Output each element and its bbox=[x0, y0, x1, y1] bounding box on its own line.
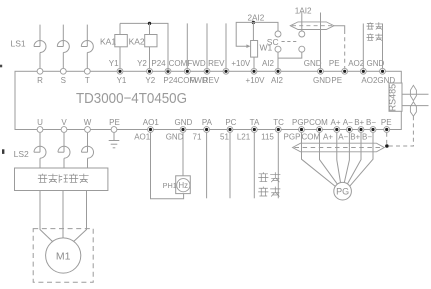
terminal PE (bottom) bbox=[384, 127, 390, 133]
shield drain to PE (dashed) bbox=[344, 30, 346, 68]
svg-text:COM: COM bbox=[309, 118, 328, 127]
SC linkage (dashed) bbox=[282, 41, 299, 43]
wire SC pole2 bottom tie bbox=[278, 52, 302, 58]
svg-text:Y1: Y1 bbox=[109, 59, 119, 68]
svg-text:PH1: PH1 bbox=[163, 181, 177, 190]
svg-text:PE: PE bbox=[331, 76, 342, 85]
LS1 breaker pole S bbox=[57, 41, 69, 53]
terminal R (top, open circle) bbox=[37, 68, 43, 74]
wire 2AI2 node down to W1 top bbox=[252, 22, 254, 40]
svg-text:REV: REV bbox=[208, 59, 225, 68]
terminal TC (bottom) bbox=[275, 127, 281, 133]
svg-text:AO1: AO1 bbox=[143, 118, 160, 127]
svg-text:LS1: LS1 bbox=[11, 38, 26, 48]
motor M1 body bbox=[46, 238, 81, 273]
scan artifact mark (left edge, top) bbox=[0, 65, 2, 68]
svg-text:PE: PE bbox=[109, 118, 120, 127]
wire W1 bottom to +10V terminal bbox=[253, 57, 255, 68]
LS1 breaker pole T bbox=[81, 41, 93, 53]
wire stub REV (top) bbox=[225, 23, 227, 68]
wire LS2 V to protector bbox=[63, 158, 65, 168]
wire KA1 to terminal Y1 bbox=[119, 47, 121, 68]
svg-text:PE: PE bbox=[329, 59, 340, 68]
terminal U (bottom, open circle) bbox=[37, 127, 43, 133]
terminal P24 (top) bbox=[165, 68, 171, 74]
svg-text:B−: B− bbox=[366, 118, 376, 127]
svg-text:SC: SC bbox=[267, 37, 279, 47]
LS2 breaker pole V bbox=[58, 146, 70, 158]
svg-text:L21: L21 bbox=[237, 132, 251, 141]
svg-text:P24: P24 bbox=[151, 59, 166, 68]
potentiometer W1 body bbox=[251, 41, 258, 58]
wire Y2 riser above KA2 bbox=[149, 23, 151, 34]
svg-text:2AI2: 2AI2 bbox=[248, 14, 265, 23]
terminal PC (bottom) bbox=[227, 127, 233, 133]
junction dot shield/PE node bbox=[385, 144, 389, 148]
terminal Y2 (top) bbox=[147, 68, 153, 74]
wire Y1 riser above KA1 bbox=[119, 23, 121, 34]
svg-text:+10V: +10V bbox=[231, 59, 251, 68]
junction dot on Y2 riser bbox=[148, 22, 151, 25]
svg-text:W: W bbox=[84, 118, 92, 127]
svg-text:KA2: KA2 bbox=[129, 36, 145, 46]
terminal PGP (bottom) bbox=[299, 127, 305, 133]
terminal FWD (top) bbox=[204, 68, 210, 74]
terminal PE (top) bbox=[342, 68, 348, 74]
wire PA (71) bbox=[206, 133, 208, 199]
wire A- to PG encoder bbox=[344, 133, 349, 183]
svg-text:FWD: FWD bbox=[187, 59, 205, 68]
wire B+ to PG encoder bbox=[347, 133, 361, 185]
SC pole2 upper contact bbox=[299, 31, 305, 37]
shield drain elbow bbox=[334, 26, 345, 30]
svg-text:Y2: Y2 bbox=[145, 76, 155, 85]
svg-text:A−: A− bbox=[343, 118, 353, 127]
svg-text:PC: PC bbox=[225, 118, 236, 127]
terminal GND (top) bbox=[318, 68, 324, 74]
cable shield dashes (1AI2) bbox=[292, 25, 333, 27]
SC pole2 lower contact bbox=[299, 46, 305, 52]
wire PC (51) bbox=[229, 133, 231, 199]
svg-text:COM: COM bbox=[301, 132, 320, 141]
wire stub GND analog (top) bbox=[320, 13, 322, 69]
comprehensive protector box bbox=[15, 168, 108, 191]
wire RS485 line A bbox=[402, 93, 429, 95]
svg-text:RS485: RS485 bbox=[388, 84, 398, 112]
terminal +10V (top) bbox=[251, 68, 257, 74]
label GuZhang (fault) bbox=[258, 187, 280, 197]
svg-text:+10V: +10V bbox=[246, 76, 266, 85]
svg-text:GND: GND bbox=[367, 59, 385, 68]
terminal S (top, open circle) bbox=[60, 68, 66, 74]
wire B- to PG encoder bbox=[349, 133, 373, 187]
terminal W (bottom, open circle) bbox=[85, 127, 91, 133]
cable shield dashes (PG) bbox=[295, 147, 384, 149]
terminal GND (top) bbox=[380, 68, 386, 74]
terminal AO2 (top) bbox=[360, 68, 366, 74]
svg-text:COM: COM bbox=[169, 59, 188, 68]
shielded cable symbol on PG wires bbox=[293, 143, 385, 152]
LS1 breaker pole R bbox=[34, 41, 46, 53]
wire W to motor bbox=[72, 191, 87, 244]
svg-text:AO1: AO1 bbox=[134, 132, 151, 141]
svg-text:Hz: Hz bbox=[179, 181, 189, 190]
wire breaker to terminal T bbox=[86, 53, 88, 69]
svg-text:AO2: AO2 bbox=[348, 59, 365, 68]
wire W1 wiper feed bbox=[236, 22, 253, 46]
relay coil KA2 bbox=[145, 35, 157, 47]
ground symbol at PE bbox=[109, 133, 120, 148]
SC pole1 lower contact bbox=[275, 46, 281, 52]
terminal B- (bottom) bbox=[370, 127, 376, 133]
wire KA2 to terminal Y2 bbox=[149, 47, 151, 68]
shielded cable symbol on 1AI2/GND pair bbox=[290, 22, 334, 30]
terminal AI2 (top) bbox=[275, 68, 281, 74]
wire P24 to relay rail bbox=[120, 23, 168, 71]
svg-text:PGP: PGP bbox=[284, 132, 301, 141]
wire PGP to PG encoder bbox=[302, 133, 336, 187]
terminal T (top, open circle) bbox=[84, 68, 90, 74]
junction dot node 2AI2 bbox=[252, 21, 255, 24]
svg-text:GND: GND bbox=[175, 118, 193, 127]
wire COM to PG encoder bbox=[320, 133, 338, 185]
RS485 shield drain (dashed) bbox=[389, 116, 413, 146]
svg-text:B−: B− bbox=[362, 132, 372, 141]
wire breaker to terminal R bbox=[39, 53, 41, 69]
wire TC (115) bbox=[277, 133, 279, 199]
wire AO1 to meter minus bbox=[151, 133, 184, 199]
wire R/S/T supply lead 1 bbox=[39, 25, 41, 47]
wire V to motor bbox=[62, 191, 64, 239]
terminal V (bottom, open circle) bbox=[61, 127, 67, 133]
svg-text:A+: A+ bbox=[323, 132, 333, 141]
svg-text:PE: PE bbox=[381, 118, 392, 127]
svg-text:51: 51 bbox=[220, 132, 229, 141]
SC pole1 upper contact bbox=[275, 31, 281, 37]
svg-text:PGP: PGP bbox=[292, 118, 309, 127]
wire A+ to PG encoder bbox=[337, 133, 341, 183]
terminal A+ (bottom) bbox=[334, 127, 340, 133]
terminal PA (bottom) bbox=[204, 127, 210, 133]
LS2 breaker pole U bbox=[34, 146, 46, 158]
svg-text:KA1: KA1 bbox=[100, 36, 116, 46]
svg-text:TA: TA bbox=[250, 118, 260, 127]
svg-text:71: 71 bbox=[193, 132, 202, 141]
svg-text:GND: GND bbox=[166, 132, 184, 141]
svg-text:U: U bbox=[37, 118, 43, 127]
frequency meter PH1 frame bbox=[176, 176, 191, 194]
terminal PE (bottom, open circle) bbox=[111, 127, 117, 133]
svg-text:AI2: AI2 bbox=[271, 76, 284, 85]
scan artifact mark (left edge, mid) bbox=[2, 149, 4, 154]
terminal COM (bottom) bbox=[317, 127, 323, 133]
wire PE (bottom) shield tie, dashed bbox=[386, 133, 388, 146]
terminal B+ (bottom) bbox=[358, 127, 364, 133]
terminal GND (bottom) bbox=[180, 127, 186, 133]
svg-text:M1: M1 bbox=[56, 251, 71, 263]
wire stub COM (top) bbox=[186, 23, 188, 68]
svg-text:B+: B+ bbox=[350, 132, 360, 141]
svg-text:T: T bbox=[85, 76, 90, 85]
svg-text:Y2: Y2 bbox=[137, 59, 147, 68]
wire V to LS2 bbox=[63, 133, 65, 153]
twisted-pair cable symbol A bbox=[410, 85, 416, 100]
label ZongHeBaoHuQi (protector) bbox=[38, 174, 89, 183]
twisted-pair cable symbol B bbox=[410, 102, 416, 116]
wire LS2 U to protector bbox=[39, 158, 41, 168]
wire U to motor bbox=[40, 191, 55, 244]
svg-text:V: V bbox=[61, 118, 67, 127]
label XinHao (signal) bbox=[367, 34, 383, 41]
terminal REV (top) bbox=[223, 68, 229, 74]
svg-text:LS2: LS2 bbox=[14, 149, 29, 159]
terminal A- (bottom) bbox=[347, 127, 353, 133]
inverter main box outline bbox=[15, 71, 401, 129]
svg-text:1AI2: 1AI2 bbox=[295, 6, 312, 15]
svg-text:Y1: Y1 bbox=[117, 76, 127, 85]
wire SC pole1 to AI2 terminal bbox=[277, 52, 279, 68]
label BianPin (inverter) bbox=[258, 172, 280, 182]
motor enclosure (dashed) bbox=[33, 229, 93, 283]
wire R/S/T supply lead 2 bbox=[62, 25, 64, 47]
terminal TA (bottom) bbox=[251, 127, 257, 133]
wire GND to meter plus bbox=[182, 133, 184, 176]
wire W to LS2 bbox=[87, 133, 89, 153]
wire SC pole2 riser to 1AI2 bbox=[301, 12, 303, 31]
svg-text:PA: PA bbox=[202, 118, 213, 127]
wire LS2 W to protector bbox=[87, 158, 89, 168]
terminal COM (top) bbox=[184, 68, 190, 74]
wire stub GND2 (torque signal -) bbox=[382, 24, 384, 69]
svg-text:GND: GND bbox=[304, 59, 322, 68]
wire stub AO2 (torque signal +) bbox=[362, 24, 364, 69]
wire 2AI2 node to SC pole1 bbox=[253, 22, 278, 31]
relay coil KA1 bbox=[115, 35, 128, 47]
wire U to LS2 bbox=[39, 133, 41, 153]
encoder PG body bbox=[334, 182, 352, 200]
svg-text:REV: REV bbox=[203, 76, 220, 85]
W1 wiper arrowhead bbox=[246, 44, 250, 48]
svg-text:A−: A− bbox=[338, 132, 348, 141]
frequency meter PH1 dial bbox=[177, 179, 190, 192]
svg-text:AI2: AI2 bbox=[262, 59, 275, 68]
svg-text:R: R bbox=[37, 76, 43, 85]
RS485 port box bbox=[389, 83, 402, 111]
svg-text:P24: P24 bbox=[163, 76, 178, 85]
svg-text:GND: GND bbox=[313, 76, 331, 85]
wire RS485 line B bbox=[402, 105, 429, 107]
label LiJu (torque) bbox=[367, 22, 383, 29]
wire R/S/T supply lead 3 bbox=[86, 25, 88, 47]
LS2 breaker pole W bbox=[82, 146, 94, 158]
wire breaker to terminal S bbox=[62, 53, 64, 69]
svg-text:TC: TC bbox=[273, 118, 284, 127]
wire TA (L21) bbox=[253, 133, 255, 199]
svg-text:A+: A+ bbox=[330, 118, 340, 127]
svg-text:B+: B+ bbox=[354, 118, 364, 127]
terminal Y1 (top) bbox=[117, 68, 123, 74]
svg-text:TD3000−4T0450G: TD3000−4T0450G bbox=[76, 91, 187, 107]
svg-text:PG: PG bbox=[336, 187, 349, 197]
svg-text:115: 115 bbox=[261, 132, 274, 141]
svg-text:S: S bbox=[61, 76, 66, 85]
terminal AO1 (bottom) bbox=[148, 127, 154, 133]
wire stub FWD (top) bbox=[206, 23, 208, 68]
